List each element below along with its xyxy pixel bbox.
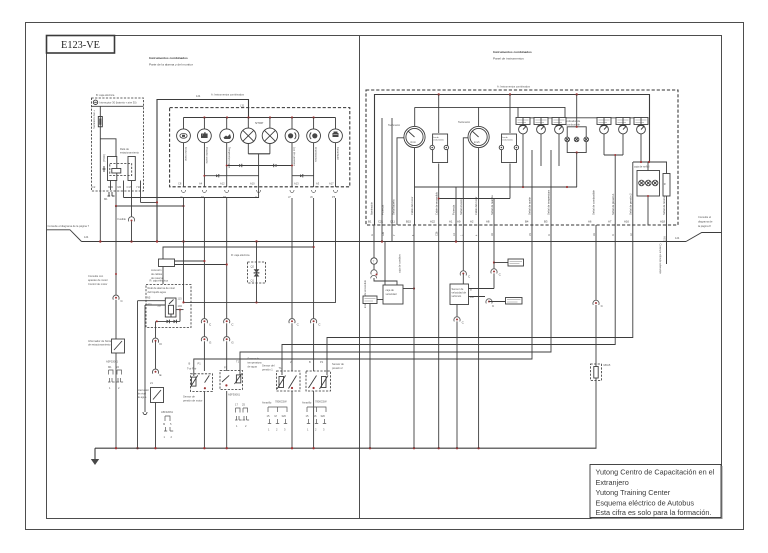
svg-text:C26: C26 [436,231,439,236]
svg-text:Sensor de: Sensor de [183,395,195,399]
svg-text:Instrumentos combinados: Instrumentos combinados [149,56,188,60]
wire B15 long [413,225,415,448]
svg-text:Señal batería: Señal batería [392,199,396,215]
alarm relay pins down [155,321,157,340]
svg-text:N5: N5 [147,296,151,300]
svg-text:instrumento: instrumento [433,139,444,142]
svg-text:A17: A17 [329,181,334,185]
svg-text:indicador de: indicador de [566,119,581,123]
buzzer fuse on wire A6 [591,363,611,381]
svg-text:Consulte el diagrama de la pág: Consulte el diagrama de la página 7 [48,224,90,228]
svg-text:vehículo: vehículo [452,294,462,298]
wire A6 with connector and fuse [593,225,604,448]
svg-text:B: caja eléctrica: B: caja eléctrica [96,93,115,97]
svg-text:Señal de combustible: Señal de combustible [592,190,596,215]
lamp L7 turn signal [307,118,321,188]
wire A4 down [203,198,205,371]
svg-text:Interruptor 30 (batería + aire: Interruptor 30 (batería + aire 30) [100,101,137,105]
stub wire A18 [666,241,668,264]
svg-text:10.6: 10.6 [664,236,667,241]
lamp box pin labels [178,181,334,185]
svg-text:Intermitentes: Intermitentes [314,147,318,163]
link line y247 [163,247,314,259]
parking relay K1 [100,139,135,181]
gauge rail y117.8 [516,107,643,117]
svg-text:la página 8: la página 8 [698,224,711,228]
svg-text:C17: C17 [127,185,132,189]
connector E [150,369,162,385]
svg-text:Cable del motor: Cable del motor [410,197,414,215]
small gauge SG2 [534,118,548,167]
svg-text:Señal de marcha: Señal de marcha [490,195,494,215]
wire A3 down [313,198,315,371]
stop lamp X1 [241,118,256,154]
svg-text:A6: A6 [588,220,592,224]
svg-text:7800C5W: 7800C5W [315,400,327,404]
svg-text:A5F30061: A5F30061 [228,393,241,397]
wire A17 to relay line [182,198,335,304]
svg-text:Informador de Norte: Informador de Norte [88,339,112,343]
vehicle speed sensor box RB2 [450,274,494,448]
connector C column A13 [289,319,300,327]
water level switch [137,388,164,449]
svg-text:C21: C21 [378,220,384,224]
instrument cluster box [366,90,678,225]
svg-text:Consulte con: Consulte con [88,274,104,278]
inner link line y187 [415,186,578,271]
sensor S4 pressure 2 [306,360,344,448]
svg-text:Tvir Fvir: Tvir Fvir [187,367,196,371]
svg-text:104: 104 [178,304,183,308]
svg-text:presión 1: presión 1 [262,368,273,372]
small box E right top [494,259,524,266]
relay feed verticals to ground [136,301,165,450]
svg-text:Esta cifra es solo para la for: Esta cifra es solo para la formación. [596,508,712,517]
small gauge SG6 [634,118,648,163]
alarm relay bottom diode link [156,309,184,324]
svg-text:aparato de motor: aparato de motor [88,278,108,282]
STOP label [255,121,263,125]
svg-text:DB: DB [470,295,474,299]
svg-text:320: 320 [321,414,326,418]
svg-text:Señal de presión 1: Señal de presión 1 [611,193,615,215]
header note right: instrumentos combinados [493,50,532,61]
svg-text:A12: A12 [220,181,225,185]
svg-text:A: Instrumentos combinados: A: Instrumentos combinados [497,85,531,89]
svg-text:A4: A4 [199,181,203,185]
connector below S2 [235,403,249,429]
wire M2 down [115,206,117,242]
connector C column A3 [311,319,322,327]
svg-text:Q1: Q1 [251,279,255,283]
label rele de estacionamiento [120,147,139,155]
svg-text:E: E [160,373,162,377]
cluster power bus 1 [375,93,650,225]
text box shadow [592,466,723,519]
svg-text:STOP: STOP [255,121,263,125]
ground bus wire [95,447,597,449]
note: A instrumentos combinados (left) [196,93,245,99]
svg-text:Extranjero: Extranjero [596,478,629,487]
bus junction dots [99,240,457,242]
svg-text:Yutong Training Center: Yutong Training Center [596,488,671,497]
connector C G column A4 [201,319,212,345]
connector below water switch [161,410,174,439]
svg-text:de agua: de agua [137,395,147,399]
svg-text:A13: A13 [294,181,299,185]
svg-text:Relé de alarma de nivel: Relé de alarma de nivel [148,286,176,290]
svg-text:B4: B4 [525,220,529,224]
svg-text:M1: M1 [104,197,108,201]
svg-text:Sensor de: Sensor de [248,357,260,361]
link line 1 [327,162,633,375]
svg-text:(Y040): (Y040) [102,154,106,162]
svg-text:Conecte válvula solenoide: Conecte válvula solenoide [659,244,663,275]
svg-text:D: D [548,234,551,236]
svg-text:Iluminación: Iluminación [370,201,374,215]
svg-text:M30: M30 [147,303,153,307]
connector C G column A12 [224,319,235,345]
parking brake info wire (left column) [88,241,124,339]
small gauge SG5 [616,118,630,156]
svg-text:A2: A2 [470,220,474,224]
wire from relay to lamp return, line y201 [124,187,259,198]
svg-text:Sensor de: Sensor de [452,287,464,291]
title block E123-VE [47,36,115,54]
svg-text:Luz de carretera: Luz de carretera [293,147,297,166]
stop lamps joining wire [248,154,270,187]
header note left: instrumentos combinados [149,56,193,67]
rotated wire names in cluster [370,189,666,215]
svg-text:Freno mano: Freno mano [184,147,188,162]
svg-text:R: caja eléctrica: R: caja eléctrica [150,279,169,283]
diode box Q (left) [231,242,266,303]
wire strip to alarm relay [162,267,164,285]
yutong text box [590,465,721,518]
svg-text:del líquido agua: del líquido agua [148,290,167,294]
svg-text:diagrama de: diagrama de [698,220,713,224]
svg-text:Tacómetro: Tacómetro [388,123,401,127]
svg-text:A10: A10 [250,181,255,185]
svg-text:Amarillo: Amarillo [262,401,272,405]
svg-text:Señal de temperatura: Señal de temperatura [547,189,551,215]
terminal strip box [151,259,228,280]
small gauge SG1 [516,118,530,188]
inner link line y198.5 [438,198,510,200]
wires from relay to box bottom [111,181,141,207]
fuel indicator lamp box [565,95,589,188]
svg-text:P1: P1 [224,366,228,370]
svg-text:A16: A16 [624,220,629,224]
speedometer gauge G2 [458,107,489,448]
wire C21 [381,118,383,242]
connector C on wire A1 [460,271,471,279]
link line 4 [194,150,532,376]
junction dots on lamp bus [203,116,314,118]
small terminal box RB0 [363,296,383,448]
lamp supply bus [184,117,336,119]
svg-text:Instrumentos combinados: Instrumentos combinados [493,50,532,54]
link line 3 [240,150,551,375]
svg-text:velocidad: velocidad [386,292,398,296]
connector C wire A8 [491,199,502,289]
rotated text ignition [363,279,367,308]
svg-text:Parte de la alarma y del monit: Parte de la alarma y del monitor [149,63,193,67]
svg-text:115: 115 [178,297,183,301]
svg-text:R: caja eléctrica: R: caja eléctrica [231,253,250,257]
wire C11 [391,118,393,242]
svg-text:Interruptor: Interruptor [137,388,149,392]
gearbox unit box RB1 [383,241,415,304]
svg-text:Control de motor: Control de motor [88,282,107,286]
signal lamp cluster bottom right [633,161,667,225]
svg-text:caja de: caja de [386,288,395,292]
connector pins below box B [104,192,115,201]
sensor S1 engine pressure [183,362,213,449]
svg-text:Tacómetro: Tacómetro [458,120,471,124]
svg-text:Cable del motor: Cable del motor [474,197,478,215]
diode link row 2 [203,174,258,177]
tachometer gauge G1 [388,107,425,225]
svg-text:combustible: combustible [566,123,580,127]
svg-text:de cables: de cables [151,272,163,276]
svg-text:B3: B3 [544,220,548,224]
gauge link line y155 [604,154,623,156]
box B caja electrica [92,93,144,191]
link wire relay to lamp C8 [115,205,185,207]
svg-text:B15: B15 [406,220,411,224]
connector half-rings below lamp box [182,190,338,193]
wire battery down [99,106,101,241]
svg-text:Señal de aceite: Señal de aceite [528,197,532,215]
small gauge SG3 [552,118,566,167]
svg-text:A3: A3 [316,181,320,185]
small gauge SG4 [597,118,611,156]
sensor S2 water temperature [220,357,262,449]
svg-text:C8: C8 [178,181,182,185]
svg-text:presión de motor: presión de motor [183,399,203,403]
svg-text:R: R [664,182,666,186]
svg-text:A5F02061: A5F02061 [161,410,174,414]
svg-text:U: U [255,195,257,199]
svg-text:C11: C11 [390,220,395,224]
svg-text:Señal crucero: Señal crucero [459,198,463,215]
svg-text:B1: B1 [368,220,372,224]
svg-text:A1: A1 [449,220,453,224]
note: A instrumentos combinados (right) [497,85,531,89]
svg-text:B: B [309,360,311,364]
svg-text:Retardador: Retardador [336,147,340,160]
svg-text:B: B [189,362,191,366]
sheet divider line [359,36,361,519]
battery symbol in header [93,100,136,104]
rotated label suministro [92,110,96,129]
svg-text:Suministro bat.+: Suministro bat.+ [92,110,96,129]
diode link row 1 [226,164,293,167]
lamp L2 charge [198,118,212,188]
wire A13 down [291,198,293,371]
svg-text:Fusible: Fusible [118,217,127,221]
svg-text:A8: A8 [486,220,490,224]
svg-text:A5F02061: A5F02061 [106,360,119,364]
svg-text:Amarillo: Amarillo [302,401,312,405]
pin codes below lamp box [180,195,336,199]
svg-text:Panel de instrumentos: Panel de instrumentos [493,57,524,61]
connector C below speed sensor pin [486,299,506,308]
svg-text:2B: 2B [158,304,161,308]
alarm relay dashed box [146,279,191,328]
parking brake switch [88,339,125,448]
svg-text:instrumento: instrumento [502,139,513,142]
page-link note left [47,224,90,242]
cluster power bus 2 [415,107,565,117]
wire to connector E [155,342,157,372]
bus wire 124 [82,241,687,243]
small terminal box RB3 [506,298,523,305]
svg-text:P1: P1 [198,362,202,366]
ground bus junction dots [115,447,480,449]
svg-text:124: 124 [196,94,201,98]
svg-text:L31: L31 [240,104,245,108]
lamp L6 high beam [285,118,299,188]
svg-text:Señal de retorno: Señal de retorno [662,195,666,215]
svg-text:A18: A18 [660,220,665,224]
wire A12 down [226,198,228,371]
svg-text:Relé de: Relé de [120,147,129,151]
sensor S3 pressure 1 [262,360,300,448]
connector below parking switch [106,360,123,391]
svg-text:km/h: km/h [474,140,480,144]
svg-text:estacionamiento: estacionamiento [120,151,139,155]
svg-text:Potencia: Potencia [452,204,456,215]
svg-text:320: 320 [282,414,287,418]
svg-text:7800C5W: 7800C5W [275,400,287,404]
svg-text:caja de señal: caja de señal [634,165,650,169]
svg-text:velocidad de: velocidad de [452,291,467,295]
stop lamp X2 [262,118,277,154]
page-link note right [675,215,722,242]
connector C below sensor [454,317,465,325]
svg-text:Consulte el: Consulte el [698,215,711,219]
svg-text:Sensor del: Sensor del [262,364,275,368]
svg-text:temperatura: temperatura [248,361,263,365]
svg-text:Potencia: Potencia [381,204,385,215]
svg-text:Presión aceite: Presión aceite [205,147,209,164]
link line 2 [282,155,615,375]
link wire relay to feed [141,201,159,203]
svg-text:M4: M4 [118,185,122,189]
svg-text:E123-VE: E123-VE [61,40,100,51]
svg-text:Sensor de: Sensor de [332,362,344,366]
rotated pin codes below cluster [371,231,667,241]
svg-text:P1: P1 [320,360,324,364]
svg-text:Esquema eléctrico de Autobus: Esquema eléctrico de Autobus [596,498,695,507]
lamp L1 parking brake [177,118,191,188]
svg-text:MFA5: MFA5 [604,363,611,367]
svg-text:A: Instrumentos combinados: A: Instrumentos combinados [211,93,245,97]
fuse F1 [98,117,102,127]
svg-text:M: M [275,414,277,418]
feed wire L31 [157,100,249,242]
lamp L3 oil [220,118,234,188]
resistor in cluster [663,162,670,264]
connector D on water-level wire [152,338,162,346]
fuse connector wire [118,190,135,242]
svg-text:D: D [612,234,615,236]
ground symbol [91,448,99,465]
connector below S3 [262,400,287,432]
svg-text:de nivel: de nivel [137,392,146,396]
indicator pair box IB2 [499,95,518,199]
lamp cluster box [170,108,350,187]
svg-text:A22: A22 [430,220,435,224]
diode link row 3 [292,174,314,177]
svg-text:Señal de presión 2: Señal de presión 2 [628,193,632,215]
inner border frame [47,36,722,519]
svg-text:124: 124 [84,235,89,239]
svg-text:M1: M1 [108,365,112,369]
svg-text:r/min: r/min [410,140,416,144]
svg-text:caja de cambios: caja de cambios [398,254,402,273]
svg-text:C2: C2 [92,185,96,189]
svg-text:A9: A9 [457,220,461,224]
wire C8 to bus [183,198,185,302]
cluster pin labels [368,220,665,224]
svg-text:P2: P2 [223,195,227,199]
svg-text:M: M [163,422,165,426]
svg-text:A7: A7 [608,220,612,224]
svg-text:Q2: Q2 [251,265,255,269]
svg-text:de agua: de agua [248,365,258,369]
connector below S4 [302,400,327,432]
svg-text:Yutong Centro de Capacitación: Yutong Centro de Capacitación en el [596,468,715,477]
wire B1 to starter cluster [371,225,397,285]
svg-text:de estacionamiento: de estacionamiento [88,343,111,347]
indicator pair box IB1 [430,95,448,449]
rotated note solenoid [659,244,663,275]
svg-text:presión 2: presión 2 [332,366,343,370]
svg-text:126: 126 [382,231,385,236]
svg-text:Cable de encendido: Cable de encendido [434,191,438,215]
svg-text:124: 124 [675,236,680,240]
svg-text:conexión: conexión [151,268,162,272]
lamp L8 retarder [329,118,343,188]
box B bottom pin labels [92,185,141,189]
